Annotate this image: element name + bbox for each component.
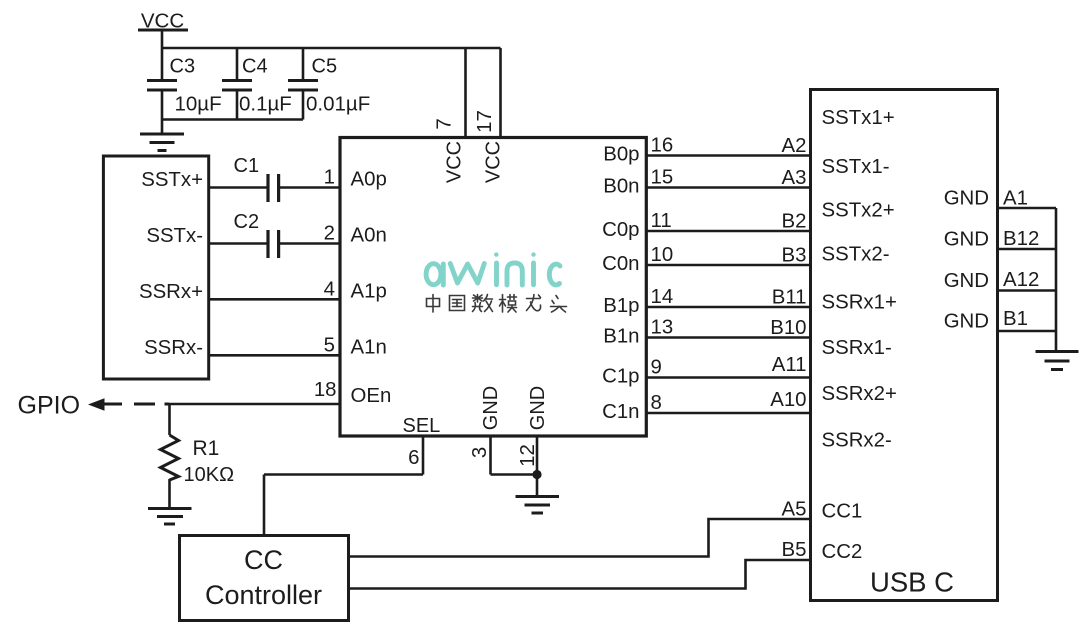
svg-text:5: 5 xyxy=(324,334,335,356)
svg-text:C1n: C1n xyxy=(602,401,639,423)
svg-text:10µF: 10µF xyxy=(175,93,222,116)
svg-text:A11: A11 xyxy=(772,354,807,376)
svg-text:B0p: B0p xyxy=(603,144,639,166)
svg-text:VCC: VCC xyxy=(141,10,184,33)
svg-text:A12: A12 xyxy=(1003,269,1039,291)
svg-text:3: 3 xyxy=(469,447,491,458)
svg-text:C1: C1 xyxy=(234,155,260,177)
svg-text:GND: GND xyxy=(944,188,989,210)
svg-text:8: 8 xyxy=(651,392,662,414)
svg-text:C0n: C0n xyxy=(602,253,639,275)
svg-text:OEn: OEn xyxy=(351,385,392,407)
svg-text:C3: C3 xyxy=(170,56,196,78)
svg-text:B1p: B1p xyxy=(603,295,639,317)
svg-text:13: 13 xyxy=(651,317,674,339)
svg-text:SSRx2-: SSRx2- xyxy=(822,430,892,452)
svg-text:0.01µF: 0.01µF xyxy=(306,93,370,116)
svg-text:CC: CC xyxy=(244,545,283,575)
svg-text:B0n: B0n xyxy=(603,176,639,198)
svg-text:10KΩ: 10KΩ xyxy=(184,464,235,486)
svg-text:A3: A3 xyxy=(782,167,807,189)
svg-text:C1p: C1p xyxy=(602,366,639,388)
svg-text:USB C: USB C xyxy=(870,567,954,598)
svg-text:1: 1 xyxy=(324,167,335,189)
svg-text:SSTx-: SSTx- xyxy=(146,225,203,247)
svg-text:14: 14 xyxy=(651,286,674,308)
svg-text:A1p: A1p xyxy=(351,280,387,302)
svg-text:B12: B12 xyxy=(1003,228,1039,250)
svg-text:A10: A10 xyxy=(770,389,806,411)
svg-text:GPIO: GPIO xyxy=(18,392,81,420)
svg-text:C0p: C0p xyxy=(602,219,639,241)
svg-text:VCC: VCC xyxy=(444,141,466,183)
svg-text:B3: B3 xyxy=(782,245,807,267)
svg-text:6: 6 xyxy=(408,447,419,469)
svg-text:B11: B11 xyxy=(772,287,807,309)
svg-text:B1n: B1n xyxy=(603,326,639,348)
svg-text:GND: GND xyxy=(944,270,989,292)
svg-text:CC1: CC1 xyxy=(822,501,863,523)
svg-text:A0n: A0n xyxy=(351,225,387,247)
svg-text:R1: R1 xyxy=(193,437,220,460)
svg-text:SSRx+: SSRx+ xyxy=(139,281,203,303)
svg-text:SSTx1+: SSTx1+ xyxy=(822,107,895,129)
svg-text:SSRx2+: SSRx2+ xyxy=(822,383,897,405)
svg-text:CC2: CC2 xyxy=(822,541,863,563)
svg-text:12: 12 xyxy=(517,444,539,467)
svg-text:GND: GND xyxy=(480,386,502,430)
svg-text:C4: C4 xyxy=(242,56,268,78)
svg-text:SSTx2+: SSTx2+ xyxy=(822,200,895,222)
svg-text:9: 9 xyxy=(651,357,662,379)
svg-text:SSRx1+: SSRx1+ xyxy=(822,292,897,314)
svg-text:A5: A5 xyxy=(782,499,807,521)
svg-text:A1: A1 xyxy=(1003,188,1028,210)
svg-text:18: 18 xyxy=(314,379,337,401)
svg-text:7: 7 xyxy=(434,118,456,129)
svg-text:SSTx+: SSTx+ xyxy=(141,169,203,191)
svg-text:SSTx1-: SSTx1- xyxy=(822,156,890,178)
svg-text:SSRx-: SSRx- xyxy=(144,337,203,359)
svg-text:A2: A2 xyxy=(782,135,807,157)
svg-text:11: 11 xyxy=(651,210,672,232)
svg-text:2: 2 xyxy=(324,223,335,245)
svg-text:VCC: VCC xyxy=(483,141,505,183)
svg-text:SSRx1-: SSRx1- xyxy=(822,337,892,359)
svg-text:Controller: Controller xyxy=(205,580,322,610)
svg-text:B2: B2 xyxy=(782,211,807,233)
svg-text:B1: B1 xyxy=(1003,308,1028,330)
svg-text:A1n: A1n xyxy=(351,336,387,358)
svg-text:16: 16 xyxy=(651,135,674,157)
svg-text:GND: GND xyxy=(944,229,989,251)
svg-text:C5: C5 xyxy=(312,56,338,78)
svg-text:0.1µF: 0.1µF xyxy=(239,93,292,116)
svg-text:B5: B5 xyxy=(782,539,807,561)
svg-text:17: 17 xyxy=(474,110,496,133)
svg-text:A0p: A0p xyxy=(351,169,387,191)
svg-text:C2: C2 xyxy=(234,211,260,233)
svg-text:SSTx2-: SSTx2- xyxy=(822,244,890,266)
svg-text:15: 15 xyxy=(651,167,674,189)
svg-text:B10: B10 xyxy=(770,317,806,339)
svg-text:4: 4 xyxy=(324,278,335,300)
svg-text:10: 10 xyxy=(651,244,674,266)
svg-text:SEL: SEL xyxy=(403,415,441,437)
svg-text:GND: GND xyxy=(527,386,549,430)
svg-text:GND: GND xyxy=(944,311,989,333)
